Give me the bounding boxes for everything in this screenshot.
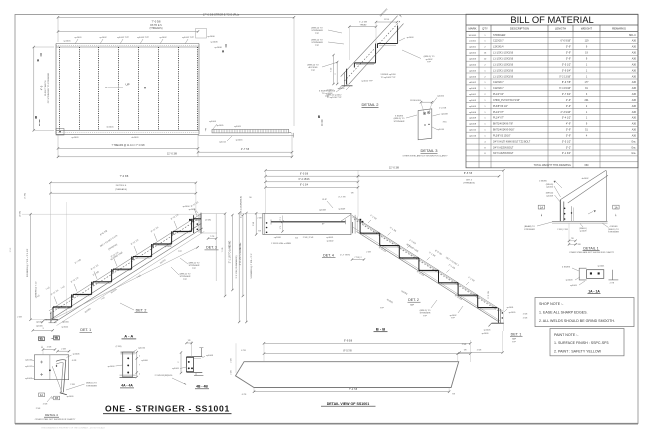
svg-text:(WELD): (WELD) [546, 184, 554, 186]
detail 1 weld symbols [554, 181, 556, 183]
svg-text:WEIGHT: WEIGHT [581, 27, 592, 31]
svg-text:(WELD) TO: (WELD) TO [608, 229, 619, 231]
B-B mid dimension small [352, 259, 364, 261]
svg-text:sp1006: sp1006 [469, 112, 477, 114]
svg-text:(7 7/8): (7 7/8) [25, 193, 27, 199]
svg-text:DETAIL 4: DETAIL 4 [45, 413, 58, 417]
svg-text:(WELD): (WELD) [546, 193, 554, 195]
svg-text:4A: 4A [40, 337, 43, 341]
B-B stair upper edge line [352, 216, 503, 311]
svg-text:1 SIDED: 1 SIDED [539, 181, 548, 183]
svg-text:1"-0 5/8: 1"-0 5/8 [439, 108, 447, 110]
svg-text:sp1001: sp1001 [597, 266, 605, 268]
svg-text:TYP: TYP [451, 318, 456, 320]
svg-text:2"-1: 2"-1 [280, 217, 282, 220]
B-B weld dots at transition [360, 219, 362, 221]
svg-text:CC STRINGER TO STRINGER: CC STRINGER TO STRINGER [48, 72, 50, 103]
svg-text:DET. 1: DET. 1 [511, 332, 522, 336]
detail 2 enlarged step detail [327, 8, 435, 107]
svg-text:2 5/8: 2 5/8 [231, 358, 233, 362]
svg-text:(BEAM) TO: (BEAM) TO [524, 225, 535, 228]
svg-text:sb1002: sb1002 [582, 178, 590, 180]
A-A extension line to left dims [22, 213, 199, 215]
svg-text:GAP: GAP [512, 338, 517, 341]
svg-text:PL1/4"X4": PL1/4"X4" [493, 93, 504, 96]
detail 1 stringer band lines [560, 170, 606, 200]
svg-text:TOTAL WEIGHT THIS DRAWING: TOTAL WEIGHT THIS DRAWING [534, 164, 571, 167]
svg-text:SS1001: SS1001 [469, 35, 478, 37]
A-A second top dimension line [50, 192, 196, 194]
1A-1A left angle [579, 268, 586, 280]
svg-text:A36: A36 [632, 58, 637, 61]
A-A bottom end plate DET1 [52, 308, 54, 319]
B-B stringer bottom flange line [353, 227, 501, 321]
svg-text:TREAD: TREAD [360, 23, 367, 26]
svg-text:sp1005: sp1005 [234, 126, 242, 128]
svg-text:TYP: TYP [178, 251, 183, 253]
svg-text:1"-5: 1"-5 [280, 226, 282, 229]
elevation section A-A stair stringer [10, 175, 244, 340]
A-A nosing dashed line [50, 220, 198, 314]
A-A tread and riser zigzag [53, 306, 72, 308]
svg-text:2 13/16X5(SB)5/16: 2 13/16X5(SB)5/16 [155, 375, 174, 377]
svg-text:2 5/8: 2 5/8 [257, 218, 261, 220]
svg-text:6"-4 15/16": 6"-4 15/16" [559, 87, 571, 90]
svg-text:11"-0 3/8: 11"-0 3/8 [167, 153, 177, 156]
svg-text:TYP: TYP [380, 308, 385, 310]
B-B left vertical dimensions [245, 213, 247, 322]
B-B top dimension right segment [358, 175, 499, 177]
svg-text:2. ALL WELDS SHOULD BE GRIND S: 2. ALL WELDS SHOULD BE GRIND SMOOTH. [539, 319, 615, 323]
svg-text:sp1002: sp1002 [99, 37, 107, 39]
svg-text:TO sp1016 TYP: TO sp1016 TYP [327, 97, 342, 99]
svg-text:119: 119 [585, 40, 589, 43]
plan bottom stringer channel [56, 129, 199, 131]
svg-text:6"-4 15/16: 6"-4 15/16 [299, 178, 311, 181]
strip extension lines [263, 343, 265, 361]
svg-text:LENGTH: LENGTH [555, 27, 566, 31]
svg-text:TYP: TYP [311, 70, 316, 72]
svg-text:(WELD) TO: (WELD) TO [394, 118, 405, 120]
B-B landing left small dims [255, 213, 257, 234]
svg-text:TYP: TYP [512, 341, 517, 343]
svg-text:2 5/8: 2 5/8 [253, 222, 255, 226]
svg-text:8"-9 7/8": 8"-9 7/8" [562, 81, 571, 84]
svg-text:5 RISERS @ 7 1/2 = 3"-1 1/2: 5 RISERS @ 7 1/2 = 3"-1 1/2 [27, 248, 29, 277]
svg-text:0"-9": 0"-9" [566, 105, 571, 108]
svg-text:sp1008: sp1008 [546, 195, 554, 197]
svg-text:7: 7 [139, 365, 140, 367]
svg-text:STRINGER: STRINGER [524, 229, 535, 231]
B-B third dimension [266, 181, 359, 183]
B-B bottom small dim near end [460, 352, 503, 354]
svg-text:STRINGER: STRINGER [86, 385, 97, 387]
svg-text:11 1/4: 11 1/4 [384, 19, 390, 21]
svg-text:BILL OF MATERIAL: BILL OF MATERIAL [510, 14, 593, 25]
svg-text:sp1006: sp1006 [210, 42, 218, 44]
svg-text:sp1005: sp1005 [509, 312, 517, 314]
svg-text:17"-0 3/8 STRGR E TO E (PL)s: 17"-0 3/8 STRGR E TO E (PL)s [203, 13, 240, 17]
svg-text:0"-9": 0"-9" [566, 46, 571, 49]
svg-text:DET. 2: DET. 2 [408, 298, 419, 302]
svg-text:(2 5/8): (2 5/8) [116, 346, 122, 348]
svg-text:STRINGER: STRINGER [394, 121, 405, 123]
A-A stringer top edge line [49, 214, 201, 311]
detail 2 bottom end [346, 69, 348, 85]
svg-text:sp1003: sp1003 [469, 59, 477, 61]
svg-text:7"-0 3/8: 7"-0 3/8 [120, 175, 129, 178]
B-B transition hatch at landing [352, 222, 354, 233]
svg-text:GAP: GAP [410, 303, 415, 306]
B-B nosing dashed line [354, 219, 500, 311]
detail 3 bolt circles [423, 112, 426, 115]
svg-text:2: 2 [139, 374, 140, 376]
svg-text:660: 660 [585, 164, 590, 167]
B-B stringer web line [357, 232, 500, 322]
detail 4 flange foot [60, 393, 67, 395]
detail 1 small dims below [569, 240, 576, 242]
svg-text:sp1002: sp1002 [159, 37, 167, 39]
svg-text:D8 TR E.S: D8 TR E.S [116, 185, 127, 187]
svg-text:sp1004: sp1004 [469, 64, 477, 66]
svg-text:PL3/8"X3 15/16": PL3/8"X3 15/16" [493, 135, 511, 138]
svg-text:sp1016: sp1016 [338, 88, 346, 90]
bill of material table [466, 14, 638, 168]
A-A left vertical dimension risers [30, 214, 32, 320]
B-B dimension extension lines [265, 170, 267, 213]
svg-text:(2 5/8): (2 5/8) [205, 220, 211, 222]
svg-text:0"-5 1/2": 0"-5 1/2" [562, 63, 571, 66]
svg-text:DET 4: DET 4 [466, 180, 473, 182]
A-A DET3 small dimension [208, 238, 216, 240]
svg-text:DETAIL 1: DETAIL 1 [583, 246, 598, 250]
svg-text:L1-1/2X1-1/2X3/16: L1-1/2X1-1/2X3/16 [493, 69, 514, 72]
svg-text:(WELD) TO: (WELD) TO [180, 274, 191, 276]
4A-4A bottom flange [120, 374, 136, 376]
svg-text:2 5/8: 2 5/8 [576, 244, 580, 246]
plan view of stair flight [33, 13, 348, 158]
svg-text:sp1008: sp1008 [25, 378, 33, 380]
4B-4B bottom flange [186, 372, 202, 374]
plan bottom overall dimension [58, 156, 292, 158]
svg-text:ss1001: ss1001 [469, 41, 477, 43]
svg-text:2. PAINT : SAFETY YELLOW: 2. PAINT : SAFETY YELLOW [554, 350, 602, 354]
svg-text:sp1002: sp1002 [426, 59, 434, 61]
section 1A-1A [562, 266, 618, 294]
svg-text:A36: A36 [632, 81, 637, 84]
strip top dimension 9ft [264, 342, 470, 344]
svg-text:CHKD_PL7/16"X10 5/16": CHKD_PL7/16"X10 5/16" [493, 99, 520, 102]
svg-text:sb1002: sb1002 [469, 82, 477, 84]
svg-text:(THREADS): (THREADS) [115, 188, 127, 191]
svg-text:sp1012: sp1012 [469, 130, 477, 132]
svg-text:(WELD) TO: (WELD) TO [86, 383, 97, 385]
4A-4A dims and labels [136, 352, 138, 377]
svg-text:DESCRIPTION: DESCRIPTION [510, 27, 529, 31]
svg-text:sb1001: sb1001 [131, 137, 139, 139]
svg-text:Gra.: Gra. [631, 140, 636, 143]
plan left dimension flight width [33, 47, 35, 130]
detail 2 stringer band lines [341, 16, 398, 77]
svg-text:sp1002 TYP: sp1002 TYP [117, 37, 130, 39]
shop note box [535, 298, 634, 327]
svg-text:sp1016: sp1016 [236, 140, 244, 142]
svg-text:sp1012: sp1012 [219, 141, 227, 143]
svg-text:C12X20.7: C12X20.7 [493, 81, 504, 84]
svg-text:1"-1 5/8: 1"-1 5/8 [359, 21, 367, 23]
plan bottom dimension landing [198, 151, 292, 153]
svg-text:ONE - STRINGER - SS1001: ONE - STRINGER - SS1001 [105, 403, 230, 413]
svg-text:DET. 1: DET. 1 [80, 328, 91, 332]
svg-text:2 5/8 | 2 5/8: 2 5/8 | 2 5/8 [557, 229, 568, 231]
svg-text:4"-7 7/8 N: 4"-7 7/8 N [340, 254, 350, 256]
svg-text:A36: A36 [632, 135, 637, 138]
svg-text:sp1005: sp1005 [172, 368, 180, 370]
svg-text:13/16 HOLE: 13/16 HOLE [410, 100, 422, 102]
svg-text:STRINGER: STRINGER [608, 232, 619, 234]
svg-text:2"-2 5/8 (CLEARANCE): 2"-2 5/8 (CLEARANCE) [240, 196, 243, 218]
svg-text:3 SIDES sp1016: 3 SIDES sp1016 [380, 74, 396, 76]
paint note box [550, 329, 624, 356]
svg-text:C12X20.7: C12X20.7 [493, 40, 504, 43]
detail view of SS1001 flat strip [231, 339, 472, 406]
detail 4 plate marks [40, 361, 43, 363]
svg-text:sp1009: sp1009 [580, 231, 588, 233]
svg-text:CLIP: CLIP [322, 199, 327, 201]
4A-4A web [123, 352, 133, 377]
svg-text:0"-9": 0"-9" [566, 52, 571, 55]
svg-text:A36: A36 [632, 93, 637, 96]
svg-text:2"-3 9/16": 2"-3 9/16" [561, 111, 572, 114]
svg-text:sp1004: sp1004 [209, 121, 217, 123]
svg-text:3/4"X A325N BOLT: 3/4"X A325N BOLT [493, 152, 514, 155]
detail 1 end plate [559, 200, 561, 222]
svg-text:sp1016: sp1016 [138, 348, 146, 350]
svg-text:Gra.: Gra. [631, 152, 636, 155]
svg-text:9"-9 5/8: 9"-9 5/8 [344, 339, 353, 342]
svg-text:sp1005: sp1005 [217, 125, 225, 127]
svg-text:sp1001: sp1001 [469, 94, 477, 96]
svg-text:sp1001: sp1001 [71, 137, 79, 139]
svg-text:sp1016: sp1016 [469, 136, 477, 138]
elevation section B-B stair with landing [235, 166, 528, 353]
strip second dimension 8ft [264, 353, 458, 355]
svg-text:2: 2 [335, 73, 337, 74]
svg-text:0"-1 3/4": 0"-1 3/4" [562, 152, 571, 155]
svg-text:sp1003: sp1003 [407, 37, 415, 39]
detail 3 plate outline [418, 109, 432, 140]
svg-text:(WELD) TO: (WELD) TO [311, 28, 323, 30]
svg-text:A36: A36 [632, 69, 637, 72]
svg-text:sp1009: sp1009 [326, 237, 334, 239]
svg-text:sp1006: sp1006 [73, 354, 81, 356]
1A-1A right bracket [612, 270, 614, 280]
svg-text:B - B: B - B [376, 326, 385, 331]
svg-text:A - A: A - A [124, 334, 133, 339]
plan top stringer channel [56, 43, 199, 45]
svg-text:sp1012: sp1012 [25, 366, 33, 368]
svg-text:1A: 1A [614, 205, 617, 209]
B-B landing tread plate thick bar [271, 221, 346, 223]
svg-text:0"-9 3/4": 0"-9 3/4" [562, 69, 571, 72]
svg-text:(THREADS): (THREADS) [463, 181, 475, 184]
svg-text:(THREADS): (THREADS) [149, 27, 162, 30]
svg-text:4A: 4A [40, 393, 43, 397]
svg-text:0"-2": 0"-2" [566, 146, 571, 149]
svg-text:7 TREADS @ 11 1/4 = 7"-0 3/8: 7 TREADS @ 11 1/4 = 7"-0 3/8 [112, 144, 146, 147]
A-A intermediate extension line [66, 202, 68, 314]
detail 3 top leader lines [421, 103, 425, 113]
detail 2 steps [354, 62, 375, 64]
svg-text:sp1016: sp1016 [25, 360, 33, 362]
svg-text:(2 5/8): (2 5/8) [20, 211, 22, 217]
svg-text:THIS DRAWING IS PROPERTY OF TH: THIS DRAWING IS PROPERTY OF THE COMPANY … [41, 426, 105, 429]
svg-text:2: 2 [139, 356, 140, 358]
svg-text:sp1001: sp1001 [36, 321, 44, 323]
svg-text:sp1005: sp1005 [484, 330, 492, 332]
svg-text:sp1002: sp1002 [165, 246, 173, 248]
svg-text:A36: A36 [632, 111, 637, 114]
drawing title ONE - STRINGER - SS1001 [103, 403, 232, 413]
A-A stringer channel web line [52, 223, 202, 319]
svg-text:0"-9": 0"-9" [566, 129, 571, 132]
svg-text:sp1006: sp1006 [469, 76, 477, 78]
svg-text:MARK: MARK [468, 27, 476, 31]
svg-text:1A: 1A [540, 205, 543, 209]
svg-text:REMARKS: REMARKS [612, 27, 626, 31]
A-A stringer bottom flange line [54, 228, 203, 323]
svg-text:8"-5 7/8: 8"-5 7/8 [464, 172, 473, 175]
detail 4 bent flange [56, 360, 66, 393]
svg-text:3 SIDES: 3 SIDES [395, 116, 404, 118]
svg-text:sp1006: sp1006 [141, 360, 148, 362]
svg-text:C12X20.7: C12X20.7 [493, 87, 504, 90]
svg-text:4B: 4B [55, 396, 58, 400]
svg-text:A36: A36 [632, 63, 637, 66]
svg-text:1A - 1A: 1A - 1A [588, 289, 600, 293]
svg-text:sp1002: sp1002 [469, 53, 477, 55]
svg-text:sp1006: sp1006 [189, 209, 197, 211]
svg-text:4"-0: 4"-0 [41, 85, 44, 90]
4B-4B dims and labels [191, 342, 193, 357]
svg-text:QTY: QTY [482, 27, 488, 31]
svg-text:sp1006: sp1006 [207, 36, 215, 38]
svg-text:sp1003: sp1003 [566, 279, 574, 281]
4A-4A bolts [127, 357, 129, 359]
svg-text:sp1002: sp1002 [327, 240, 335, 242]
svg-text:OTHER STEEL NOT SHOWN FOR CLAR: OTHER STEEL NOT SHOWN FOR CLARITY [35, 418, 76, 421]
svg-text:1. SURFACE FINISH : SSPC-SP3: 1. SURFACE FINISH : SSPC-SP3 [554, 341, 609, 345]
4A-4A top flange [121, 351, 135, 353]
svg-text:TO sp1003 TYP: TO sp1003 TYP [381, 77, 396, 79]
plan landing channel (hatched) [212, 129, 289, 133]
svg-text:BNT1/4X24X6 7/8": BNT1/4X24X6 7/8" [493, 123, 513, 126]
svg-text:4A - 4A: 4A - 4A [121, 384, 133, 388]
B-B bottom end plate [498, 308, 500, 323]
svg-text:(WELD) TO: (WELD) TO [189, 263, 200, 265]
svg-text:4"-7 7/8: 4"-7 7/8 [338, 197, 346, 199]
B-B top dimension overall [266, 169, 504, 171]
svg-text:PL1/4"X7": PL1/4"X7" [493, 111, 504, 114]
plan landing bottom edge line [198, 135, 294, 137]
detail 4 bent plate detail [25, 336, 97, 421]
svg-text:sp1003 TYP: sp1003 TYP [137, 37, 150, 39]
B-B landing internal lines [270, 220, 272, 225]
svg-text:STRINGER: STRINGER [493, 34, 506, 37]
svg-text:(WELD) TO: (WELD) TO [307, 65, 319, 67]
svg-text:7/8: 7/8 [188, 340, 191, 342]
svg-text:0"-9": 0"-9" [566, 135, 571, 138]
A-A top dimension line [50, 182, 196, 184]
svg-text:2 5/8: 2 5/8 [231, 370, 233, 374]
svg-text:4B: 4B [55, 336, 58, 340]
svg-text:FLIGHT WIDTH: FLIGHT WIDTH [45, 80, 47, 96]
plan dimension 8 treads [58, 31, 198, 33]
svg-text:3"-9 9/16 (CLEARANCE): 3"-9 9/16 (CLEARANCE) [235, 255, 238, 278]
svg-text:L1-1/2X1-1/2X3/16: L1-1/2X1-1/2X3/16 [493, 75, 514, 78]
svg-text:A36: A36 [632, 123, 637, 126]
svg-text:TYP: TYP [183, 279, 188, 281]
detail 1 base lines [552, 220, 608, 222]
svg-text:STRINGER: STRINGER [189, 265, 200, 267]
svg-text:sp1009: sp1009 [338, 209, 346, 211]
svg-text:A36: A36 [632, 105, 637, 108]
detail 2 tip arrow [399, 15, 402, 18]
svg-text:0"-4 1/2": 0"-4 1/2" [562, 117, 571, 120]
svg-text:5 RISERS @ 7 5/8 = 3"-2: 5 RISERS @ 7 5/8 = 3"-2 [251, 253, 253, 278]
strip outline hexagon [236, 362, 459, 388]
svg-text:TYP: TYP [427, 62, 432, 64]
svg-text:sp1002: sp1002 [450, 315, 458, 317]
svg-text:OTHER STEEL ARE NOT SHOWN FOR: OTHER STEEL ARE NOT SHOWN FOR CLARITY [402, 155, 448, 158]
svg-text:sp1008: sp1008 [469, 124, 477, 126]
svg-text:4"-9": 4"-9" [566, 99, 571, 102]
B-B landing internal small dims [282, 216, 284, 222]
B-B top dimension left segment [266, 175, 359, 177]
svg-text:sp1006: sp1006 [546, 187, 554, 189]
svg-text:sp1016: sp1016 [62, 321, 70, 323]
svg-text:PL3/8"X6 1/2": PL3/8"X6 1/2" [493, 105, 508, 108]
svg-text:3/4"X A325N BOLT: 3/4"X A325N BOLT [493, 146, 514, 149]
svg-text:sp1012: sp1012 [61, 327, 69, 329]
strip bottom dimension 7ft [254, 391, 449, 393]
svg-text:6"-0 9/16": 6"-0 9/16" [561, 40, 572, 43]
svg-text:1. EASE ALL SHARP EDGES.: 1. EASE ALL SHARP EDGES. [539, 310, 588, 314]
svg-text:7"-4 7/8: 7"-4 7/8 [349, 388, 358, 391]
svg-text:4"-9": 4"-9" [566, 123, 571, 126]
section 4A-4A channel section [108, 346, 149, 388]
A-A tip dimension arrow [44, 318, 47, 321]
svg-text:PAINT NOTE :-: PAINT NOTE :- [554, 333, 579, 337]
svg-text:PL1/4"X7": PL1/4"X7" [493, 117, 504, 120]
plan tread hidden lines [59, 47, 61, 130]
svg-text:7/8: 7/8 [571, 238, 574, 240]
svg-text:0"-9": 0"-9" [566, 58, 571, 61]
detail 2 top dimensions [349, 26, 376, 28]
svg-text:A36: A36 [632, 75, 637, 78]
svg-text:STRINGER: STRINGER [420, 313, 431, 315]
svg-text:sp1009: sp1009 [469, 118, 477, 120]
svg-text:8"-5 7/8: 8"-5 7/8 [343, 350, 352, 353]
svg-text:(WELD) TO: (WELD) TO [424, 56, 435, 58]
svg-text:201: 201 [585, 99, 590, 102]
svg-text:3/4"X HILTI KWIK BOLT TZ2 BOLT: 3/4"X HILTI KWIK BOLT TZ2 BOLT [493, 140, 531, 143]
svg-text:sp1008: sp1008 [206, 355, 214, 357]
svg-text:sp1012: sp1012 [327, 90, 335, 92]
svg-text:sp1008: sp1008 [441, 113, 449, 115]
plan top dimension 17ft [58, 16, 294, 18]
B-B tread and riser zigzag [359, 221, 361, 233]
